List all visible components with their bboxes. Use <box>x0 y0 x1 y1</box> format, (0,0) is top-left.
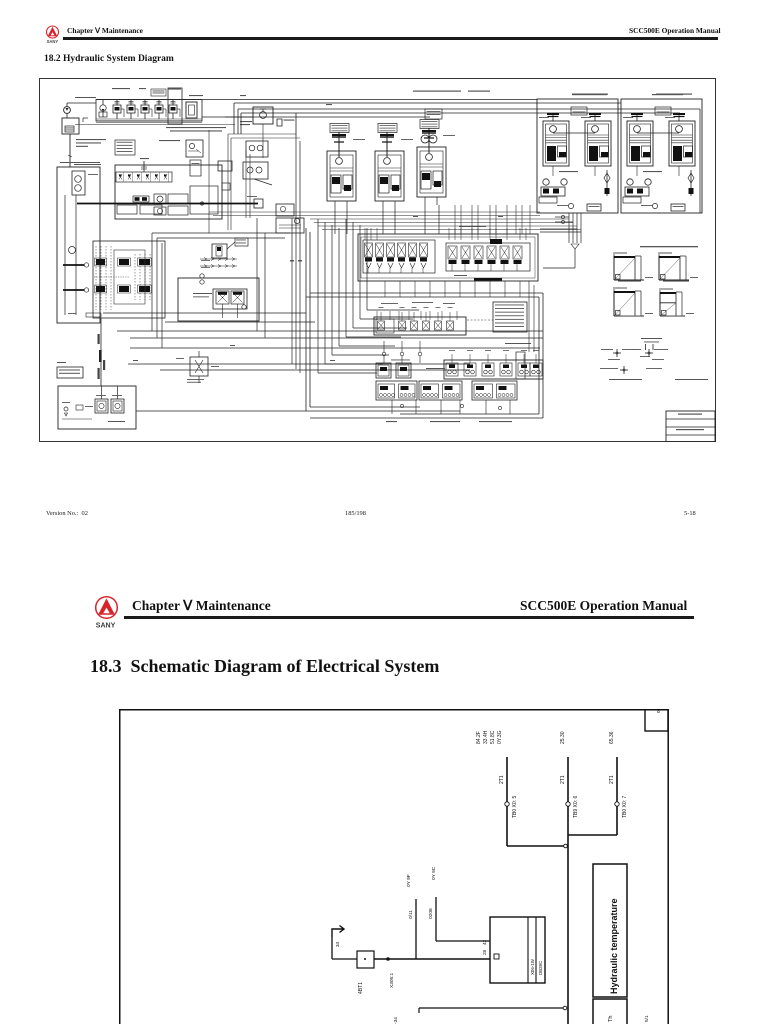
wire to module <box>374 957 490 988</box>
svg-text:84.2F: 84.2F <box>476 731 482 744</box>
svg-text:TB0 X0: 7: TB0 X0: 7 <box>622 796 628 818</box>
svg-text:2T1: 2T1 <box>560 775 566 784</box>
pilot pressure bus <box>77 196 263 208</box>
top supply rails <box>96 95 700 233</box>
oil radiator RE1 <box>186 140 268 176</box>
section heading 18.2 <box>44 54 174 64</box>
section heading 18.3 <box>90 656 439 677</box>
winch return wires <box>310 205 581 268</box>
svg-text:TB9 X0: 6: TB9 X0: 6 <box>573 796 579 818</box>
svg-text:5/1: 5/1 <box>644 1015 650 1022</box>
svg-text:0208: 0208 <box>428 908 434 919</box>
svg-text:0/11: 0/11 <box>408 910 414 919</box>
shuttle valve SV1 <box>176 351 219 383</box>
pump regulator A1 <box>327 124 365 210</box>
header right page1 <box>629 26 721 35</box>
performance curves <box>614 246 698 317</box>
header title page2 <box>132 598 271 614</box>
svg-text:X06-1W: X06-1W <box>530 958 535 975</box>
pump P1 with tank T1 <box>62 103 96 167</box>
svg-text:28: 28 <box>482 949 487 955</box>
interconnect rails <box>103 137 543 411</box>
svg-text:2T1: 2T1 <box>499 775 505 784</box>
label box L3 <box>425 109 442 119</box>
signal arrow 34 <box>332 926 344 948</box>
svg-text:0Y 9C: 0Y 9C <box>431 866 437 880</box>
logo SANY page1 <box>44 24 68 44</box>
solenoid manifold V3 <box>57 167 165 386</box>
svg-text:X305:1: X305:1 <box>389 972 395 988</box>
electrical schematic frame <box>119 709 669 1024</box>
hydraulic temperature block <box>593 864 627 997</box>
wire 2T1 to TB9-X0:6 <box>560 731 579 1024</box>
svg-text:DB28C: DB28C <box>538 961 543 975</box>
header right page2 <box>520 598 687 614</box>
title block <box>666 411 715 442</box>
svg-text:51.8C: 51.8C <box>490 730 496 744</box>
bottom wire <box>393 1006 650 1024</box>
hydraulic symbol legend <box>600 338 708 380</box>
manifold feed staircase <box>306 219 457 411</box>
header rule page1 <box>63 37 718 40</box>
aux pump P2 <box>225 107 295 126</box>
main winch circuit W2 <box>621 94 702 214</box>
header rule page2 <box>124 616 694 619</box>
main control manifold V2 <box>60 158 272 219</box>
svg-text:25.30: 25.30 <box>560 731 566 744</box>
pilot valve row V1 <box>75 88 235 125</box>
central manifold upper band V5 <box>358 205 538 297</box>
svg-text:4BT1: 4BT1 <box>358 982 364 994</box>
pump regulator A2 <box>375 124 413 210</box>
svg-text:42: 42 <box>482 939 487 945</box>
central valve manifold V4 <box>306 281 543 422</box>
svg-text:Th: Th <box>608 1016 614 1022</box>
filter legend F1 <box>57 362 83 378</box>
svg-text:34: 34 <box>335 941 340 947</box>
controller module X06 <box>482 917 545 983</box>
svg-text:0Y.3G: 0Y.3G <box>497 730 503 744</box>
svg-text:02: 02 <box>656 709 661 713</box>
header title page1 <box>67 26 143 35</box>
wire 2T1 to TB0-X0:7 <box>568 731 628 835</box>
gear pump block P3 <box>58 386 136 429</box>
sensor 4BT1 <box>332 937 374 994</box>
mid components cluster <box>200 204 304 284</box>
footer page1 <box>46 510 88 517</box>
wire 2T1 to TB0-X0:5 <box>476 730 567 848</box>
pump motor A3 <box>417 120 455 206</box>
hydraulic schematic frame <box>39 78 716 442</box>
svg-text:-34: -34 <box>393 1017 399 1024</box>
svg-text:0Y 9F: 0Y 9F <box>406 874 412 887</box>
svg-text:SANY: SANY <box>96 623 116 630</box>
sensor wires 0Y9F 0Y9C <box>406 866 490 959</box>
travel brake block B1 <box>178 278 259 321</box>
logo SANY page2 <box>94 594 130 630</box>
svg-text:65.36: 65.36 <box>609 731 615 744</box>
svg-text:Hydraulic temperature: Hydraulic temperature <box>609 898 619 994</box>
svg-text:33.4H: 33.4H <box>483 730 489 744</box>
annotation notes <box>74 127 226 165</box>
svg-text:SANY: SANY <box>47 39 59 44</box>
winch titles <box>413 91 683 96</box>
block 2 partial <box>593 999 627 1024</box>
svg-text:2T1: 2T1 <box>609 775 615 784</box>
enclosure wires left <box>152 233 290 348</box>
svg-text:TB0 X0: 5: TB0 X0: 5 <box>512 796 518 818</box>
free-fall winch circuit W1 <box>537 94 618 214</box>
drawing corner stamp <box>645 707 668 731</box>
